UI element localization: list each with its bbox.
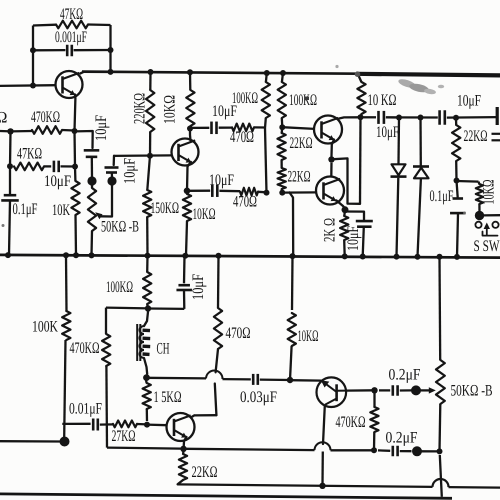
node ground rail <box>290 253 296 259</box>
wire input line bottom <box>0 440 60 443</box>
node rail R11 <box>264 70 270 76</box>
node Q2 collector <box>187 126 193 132</box>
capacitor C16 0.2uF top <box>379 367 421 396</box>
speck 2 <box>2 224 5 227</box>
svg-text:50KΩ -B: 50KΩ -B <box>101 219 139 236</box>
wire Q1 collector to rail <box>80 72 84 74</box>
svg-text:0.001μF: 0.001μF <box>55 29 87 46</box>
wire emitter line y449 right <box>331 449 375 451</box>
transistor Q4 <box>316 177 344 205</box>
capacitor C4 10uF vertical <box>84 115 110 157</box>
capacitor C12 0.01uF <box>69 401 102 431</box>
wire Q6 bottom down <box>323 406 325 445</box>
hop over pot wire <box>433 479 449 487</box>
wire rail R12 stub <box>282 73 283 82</box>
svg-text:10KΩ: 10KΩ <box>162 95 179 124</box>
node Q3 emitter <box>328 156 334 162</box>
capacitor C7 10uF coupling2 <box>187 172 234 197</box>
node big C5 bottom <box>107 176 116 185</box>
svg-text:47KΩ: 47KΩ <box>60 6 83 23</box>
diode D2 <box>413 118 429 257</box>
node Q4 emitter <box>342 206 349 213</box>
resistor R2 470K <box>11 109 75 134</box>
wire left stub 470K <box>0 130 11 133</box>
svg-text:470Ω: 470Ω <box>226 325 251 342</box>
capacitor C1 0.001uF feedback <box>33 29 111 56</box>
capacitor C11 0.1uF <box>430 181 466 258</box>
resistor R25 10K <box>288 256 319 380</box>
capacitor C5 10uF vertical <box>105 156 139 184</box>
transistor Q3 <box>314 116 342 144</box>
transistor Q6 <box>317 377 347 407</box>
svg-text:10μF: 10μF <box>93 115 110 141</box>
resistor R4 10K emitter <box>52 167 80 256</box>
wire Q1 emitter <box>73 95 76 132</box>
wire loop right <box>332 158 361 203</box>
wire out1 dot lead <box>400 389 412 391</box>
resistor R16 2K <box>322 210 349 257</box>
node R3 left <box>7 163 13 169</box>
node ground rail <box>415 254 421 260</box>
choke CH <box>137 309 170 374</box>
wire Q3 collector <box>339 117 361 118</box>
wire emitter line y449 left <box>107 448 181 449</box>
svg-text:470KΩ: 470KΩ <box>31 109 60 126</box>
node C2 right <box>72 164 78 170</box>
svg-text:10KΩ: 10KΩ <box>298 328 319 345</box>
svg-text:470Ω: 470Ω <box>233 194 257 211</box>
resistor R14 22K <box>278 160 311 193</box>
svg-text:100K: 100K <box>32 319 58 336</box>
smudge artifact <box>397 77 444 95</box>
node big out1 <box>411 385 421 395</box>
resistor R15 10K load <box>357 74 396 117</box>
svg-text:47KΩ: 47KΩ <box>17 146 42 163</box>
node Q4 base node <box>279 190 285 196</box>
wire Q2 collector <box>189 129 192 141</box>
node C1 right <box>108 47 114 53</box>
node rail R7 <box>187 69 193 75</box>
wire pot to bottom <box>440 455 442 497</box>
node base Q1 junction <box>30 83 36 89</box>
transistor Q5 <box>167 413 195 441</box>
svg-text:0.2μF: 0.2μF <box>389 367 421 384</box>
wire Q3 base <box>282 127 314 129</box>
svg-text:27KΩ: 27KΩ <box>112 428 136 445</box>
svg-text:CH: CH <box>157 341 170 358</box>
svg-text:0.03μF: 0.03μF <box>240 389 277 406</box>
wire R24 to Q5 collector <box>191 384 216 418</box>
ground rail mid <box>0 255 500 258</box>
svg-text:10μF: 10μF <box>190 274 207 300</box>
wire Q2 emitter <box>187 162 191 191</box>
wire out2 to pot <box>422 450 440 452</box>
wire C4 to pot <box>91 157 93 177</box>
node D1 top <box>396 115 402 121</box>
ground line lower right <box>449 486 500 489</box>
transistor Q1 <box>56 71 83 98</box>
svg-text:470KΩ: 470KΩ <box>336 414 366 431</box>
svg-text:10KΩ: 10KΩ <box>481 179 498 204</box>
node right junction <box>454 178 460 184</box>
label fragment ohm left <box>0 110 8 127</box>
resistor R9 10K emitter <box>183 194 216 256</box>
capacitor C9 10uF output <box>361 111 400 141</box>
svg-text:470Ω: 470Ω <box>230 129 254 146</box>
svg-text:1 5KΩ: 1 5KΩ <box>154 389 182 406</box>
svg-text:0.2μF: 0.2μF <box>386 430 418 447</box>
wire Q6 base <box>290 379 322 382</box>
wire input to Q1 base <box>0 84 56 87</box>
hop over Q6 wire <box>315 442 331 450</box>
node CH bottom <box>143 374 150 381</box>
svg-text:22KΩ: 22KΩ <box>290 135 313 152</box>
arrow wiper VR2 <box>421 387 436 393</box>
svg-text:10K: 10K <box>52 202 70 219</box>
wire 0.03 line left <box>146 377 207 380</box>
node ground rail <box>394 254 400 260</box>
svg-text:22KΩ: 22KΩ <box>288 169 311 186</box>
speck 1 <box>335 65 338 68</box>
node big C4 bottom <box>87 176 96 185</box>
resistor R12 100K <box>278 82 317 127</box>
resistor R13 22K <box>277 127 312 160</box>
resistor R10 470ohm2 <box>219 188 266 211</box>
svg-text:0.01μF: 0.01μF <box>69 401 102 418</box>
hop over R24 <box>206 371 223 380</box>
svg-text:0.1μF: 0.1μF <box>13 201 38 218</box>
resistor R24 470ohm load <box>214 256 251 372</box>
resistor R18 10K switch <box>457 179 498 211</box>
resistor R19 100K input <box>32 256 71 437</box>
node big input <box>60 437 70 447</box>
resistor R22 100K <box>106 256 151 309</box>
capacitor C15 0.2uF bottom <box>378 430 418 457</box>
power rail top <box>82 72 500 76</box>
wire Q5 base <box>147 423 167 426</box>
svg-text:470KΩ: 470KΩ <box>70 340 100 357</box>
resistor R20 27K <box>100 421 147 446</box>
switch S SW <box>474 222 500 255</box>
potentiometer VR2 50K-B <box>436 257 493 451</box>
svg-text:150KΩ: 150KΩ <box>151 200 180 217</box>
node C10 right <box>453 115 459 121</box>
resistor R23 1.5K <box>143 378 182 421</box>
wire emitter line y449 mid <box>187 449 315 450</box>
svg-text:0.1μF: 0.1μF <box>430 188 454 205</box>
potentiometer VR1 50K-B <box>88 185 139 256</box>
node rail feedback <box>108 69 114 75</box>
wire 0.03 line mid <box>223 378 251 381</box>
node R26 bottom <box>371 447 377 453</box>
marks equal right <box>492 134 500 141</box>
resistor R3 47K <box>14 146 51 171</box>
capacitor C10 10uF output2 <box>440 93 497 125</box>
node rail R12 <box>280 70 286 76</box>
node R11 bottom <box>264 190 270 196</box>
resistor R11 100K <box>232 82 270 193</box>
node Q6 ground <box>319 483 325 489</box>
svg-text:10μF: 10μF <box>209 172 234 189</box>
node ground rail <box>63 252 69 258</box>
node ground rail <box>89 252 95 258</box>
node rail R5 <box>148 69 154 75</box>
svg-text:10μF: 10μF <box>457 93 481 110</box>
svg-text:10 KΩ: 10 KΩ <box>368 92 397 109</box>
svg-text:10μF: 10μF <box>44 173 71 190</box>
capacitor C13 10uF <box>176 256 207 309</box>
svg-text:10μF: 10μF <box>345 226 362 251</box>
svg-text:2K Ω: 2K Ω <box>322 218 339 242</box>
node ground rail <box>182 253 188 259</box>
node ground rail <box>437 254 443 260</box>
svg-text:100KΩ: 100KΩ <box>232 90 258 107</box>
terminal bar right <box>496 107 499 125</box>
node ground rail <box>145 253 151 259</box>
node Q2 emitter branch <box>184 188 191 195</box>
diode D1 <box>391 118 407 257</box>
node big out2 <box>412 446 422 456</box>
wire base node to ground <box>290 193 294 257</box>
wire Q6 collector out <box>346 389 375 392</box>
capacitor C8 10uF bypass <box>345 212 373 257</box>
node ground rail <box>454 254 460 260</box>
wire rail R11 stub <box>265 73 268 82</box>
svg-text:50KΩ -B: 50KΩ -B <box>451 383 493 400</box>
svg-text:S SW: S SW <box>474 238 500 255</box>
capacitor C14 0.03uF <box>240 374 290 406</box>
wire output link <box>386 116 438 118</box>
transistor Q2 <box>172 139 199 166</box>
svg-text:10μF: 10μF <box>122 158 139 184</box>
wire Q5 emitter <box>184 437 187 448</box>
wire Q4 emitter <box>337 201 346 209</box>
wire Q3 emitter <box>332 140 335 157</box>
svg-text:100KΩ: 100KΩ <box>106 279 133 296</box>
speck 4 <box>463 212 466 215</box>
node Q5 base <box>144 422 150 428</box>
wire Q4 collector <box>330 163 333 177</box>
svg-text:10μF: 10μF <box>376 124 399 141</box>
smudge rail dot <box>355 71 361 77</box>
capacitor C3 0.1uF <box>1 166 37 255</box>
resistor R7 10K collector <box>162 72 195 128</box>
wire Q4 base <box>282 191 316 194</box>
wire left column <box>9 131 12 166</box>
wire collector column down <box>359 117 362 204</box>
node R27 top <box>180 446 186 452</box>
node emitter Q1 <box>72 128 78 134</box>
wire switch to edge <box>484 214 500 216</box>
resistor R1 47K feedback <box>33 6 111 28</box>
resistor R5 220K <box>132 72 155 156</box>
capacitor C2 10uF <box>44 161 75 190</box>
node R2 left <box>7 128 13 134</box>
svg-text:10KΩ: 10KΩ <box>193 206 216 223</box>
svg-text:22KΩ: 22KΩ <box>192 464 218 481</box>
node collector Q3 <box>358 114 364 120</box>
node D2 top <box>418 115 424 121</box>
wire C5 to wiper <box>111 185 113 217</box>
wire C4 branch <box>75 131 93 148</box>
ground line lower <box>178 484 433 487</box>
node pot bottom <box>437 448 443 454</box>
wire feedback box left <box>32 26 34 87</box>
resistor R6 150K <box>143 156 179 256</box>
wire C12 branch <box>62 423 90 425</box>
wire Q2 base <box>114 154 172 157</box>
bottom border line <box>0 494 452 498</box>
resistor R27 22K <box>178 449 218 485</box>
wire node row 308 <box>106 308 184 309</box>
resistor R26 470K <box>336 390 379 450</box>
svg-text:22KΩ: 22KΩ <box>464 128 488 145</box>
svg-text:Ω: Ω <box>0 110 8 127</box>
node big switch <box>475 211 484 220</box>
svg-text:220KΩ: 220KΩ <box>132 93 149 124</box>
node ground rail <box>73 252 79 258</box>
capacitor C6 10uF coupling <box>190 103 237 134</box>
node ground rail <box>360 254 366 260</box>
node ground rail <box>342 253 348 259</box>
node choke top <box>145 305 151 311</box>
wire Q6 bottom down2 <box>321 452 324 485</box>
node ground rail <box>216 253 222 259</box>
resistor R17 22K <box>452 118 488 181</box>
node collector Q6 <box>371 387 377 393</box>
node ground rail <box>5 252 11 258</box>
resistor R8 470ohm <box>219 124 265 146</box>
wire feedback box right <box>109 25 111 72</box>
wire emitter column Q1 <box>73 131 76 167</box>
speck 3 <box>305 97 309 101</box>
node C1 left <box>30 47 36 53</box>
node Q2 base <box>147 153 153 159</box>
node Q6 base node <box>287 377 293 383</box>
svg-text:100KΩ: 100KΩ <box>289 92 317 109</box>
node Q3 base <box>279 124 285 130</box>
resistor R21 470K <box>70 308 111 448</box>
